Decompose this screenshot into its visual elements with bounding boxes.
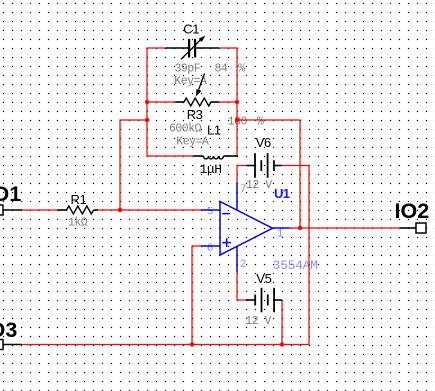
svg-text:%: % bbox=[257, 115, 264, 128]
svg-text:3554AM: 3554AM bbox=[273, 259, 318, 273]
label L1 bbox=[207, 123, 221, 138]
wire: V6 negative lead right and down to rail bbox=[281, 166, 309, 345]
wire: R3 branch left segment bbox=[147, 101, 176, 103]
wire: left vertical of feedback network x=147 bbox=[146, 48, 148, 156]
junction output node bbox=[298, 226, 302, 230]
svg-text:L1: L1 bbox=[207, 123, 221, 138]
svg-text:1: 1 bbox=[277, 229, 284, 241]
svg-text:12 V: 12 V bbox=[246, 179, 272, 192]
pin 6 bbox=[207, 243, 214, 255]
wire: right vertical of feedback network x=237 bbox=[236, 48, 238, 156]
wire: R1 to inverting input bbox=[98, 209, 201, 211]
wire: L1 branch red segment bbox=[146, 155, 193, 157]
svg-text:12 V: 12 V bbox=[245, 315, 271, 328]
value 100 % (R3 setting) bbox=[228, 115, 264, 128]
junction at R1 output node bbox=[118, 208, 122, 212]
label R1 bbox=[71, 192, 87, 207]
value 600kΩ bbox=[169, 123, 202, 136]
pin 7 bbox=[240, 184, 247, 196]
junction R3 branch left bbox=[145, 100, 149, 104]
label V6 bbox=[256, 135, 271, 150]
potentiometer R3 bbox=[176, 74, 219, 107]
connector IO1 bbox=[0, 205, 22, 215]
value 1kΩ bbox=[68, 217, 88, 230]
svg-text:IO2: IO2 bbox=[395, 199, 430, 223]
svg-text:1kΩ: 1kΩ bbox=[68, 217, 88, 230]
svg-text:V5: V5 bbox=[256, 271, 271, 286]
wire: V5 positive lead down to rail bbox=[281, 300, 283, 345]
value Key=A (C1) bbox=[174, 75, 207, 88]
wire: IO1 to R1 bbox=[22, 209, 58, 211]
wire: op-amp output to IO2 bbox=[290, 227, 401, 229]
junction non-inverting ground bbox=[190, 342, 194, 346]
svg-text:R1: R1 bbox=[71, 192, 87, 207]
svg-text:1μH: 1μH bbox=[200, 162, 222, 177]
wire: ground rail IO3 bbox=[22, 344, 310, 346]
value Key=A (R3) bbox=[176, 136, 209, 149]
wire: pin2 down to V5 negative lead bbox=[237, 272, 246, 300]
junction feedback tee right bbox=[235, 118, 239, 122]
value 12 V (V5) bbox=[245, 315, 271, 328]
svg-text:IO1: IO1 bbox=[0, 182, 21, 206]
connector IO2 bbox=[400, 223, 426, 233]
label C1 bbox=[183, 22, 199, 37]
label U1 bbox=[274, 186, 290, 201]
battery V5 bbox=[246, 288, 282, 313]
pin 5 bbox=[207, 207, 214, 219]
value 1μH bbox=[200, 162, 222, 177]
svg-text:C1: C1 bbox=[183, 22, 199, 37]
label 3554AM bbox=[273, 259, 318, 273]
wire: feedback tee left to inverting input bbox=[120, 120, 147, 210]
wire: R3 branch right segment bbox=[219, 101, 237, 103]
pin 1 bbox=[277, 229, 284, 241]
svg-text:5: 5 bbox=[207, 207, 214, 219]
svg-text:2: 2 bbox=[240, 259, 247, 271]
svg-text:Key=A: Key=A bbox=[176, 136, 209, 149]
junction R3 branch right bbox=[235, 100, 239, 104]
label IO1 bbox=[0, 182, 21, 206]
pin 2 bbox=[240, 259, 247, 271]
label IO3 bbox=[0, 318, 17, 342]
capacitor C1 (variable) bbox=[166, 36, 220, 60]
resistor R1 bbox=[58, 206, 98, 214]
svg-text:39pF: 39pF bbox=[175, 63, 201, 76]
svg-text:R3: R3 bbox=[187, 107, 203, 122]
battery V6 bbox=[246, 153, 281, 178]
value 12 V (V6) bbox=[246, 179, 272, 192]
svg-text:84: 84 bbox=[215, 63, 228, 76]
wire: feedback top right to output node bbox=[237, 120, 300, 228]
svg-text:IO3: IO3 bbox=[0, 318, 17, 342]
label R3 bbox=[187, 107, 203, 122]
svg-text:V6: V6 bbox=[256, 135, 271, 150]
wire: C1 top-left stub bbox=[146, 47, 165, 49]
svg-text:U1: U1 bbox=[274, 186, 290, 201]
svg-text:600kΩ: 600kΩ bbox=[169, 123, 202, 136]
wire: C1 top-right stub bbox=[219, 47, 238, 49]
label V5 bbox=[256, 271, 271, 286]
op-amp U1 bbox=[201, 183, 290, 273]
wire: non-inverting input stub bbox=[192, 245, 201, 247]
label IO2 bbox=[395, 199, 430, 223]
junction feedback tee left bbox=[145, 118, 149, 122]
svg-text:7: 7 bbox=[240, 184, 247, 196]
value 39pF 84 % bbox=[175, 63, 246, 76]
svg-text:%: % bbox=[238, 63, 245, 76]
inductor L1 bbox=[194, 156, 238, 159]
wire: non-inverting input down to ground rail bbox=[191, 245, 193, 344]
wire: pin7 to V6 positive lead bbox=[237, 166, 246, 183]
svg-text:6: 6 bbox=[207, 243, 214, 255]
connector IO3 bbox=[0, 340, 22, 350]
junction V5 rail bbox=[280, 342, 284, 346]
